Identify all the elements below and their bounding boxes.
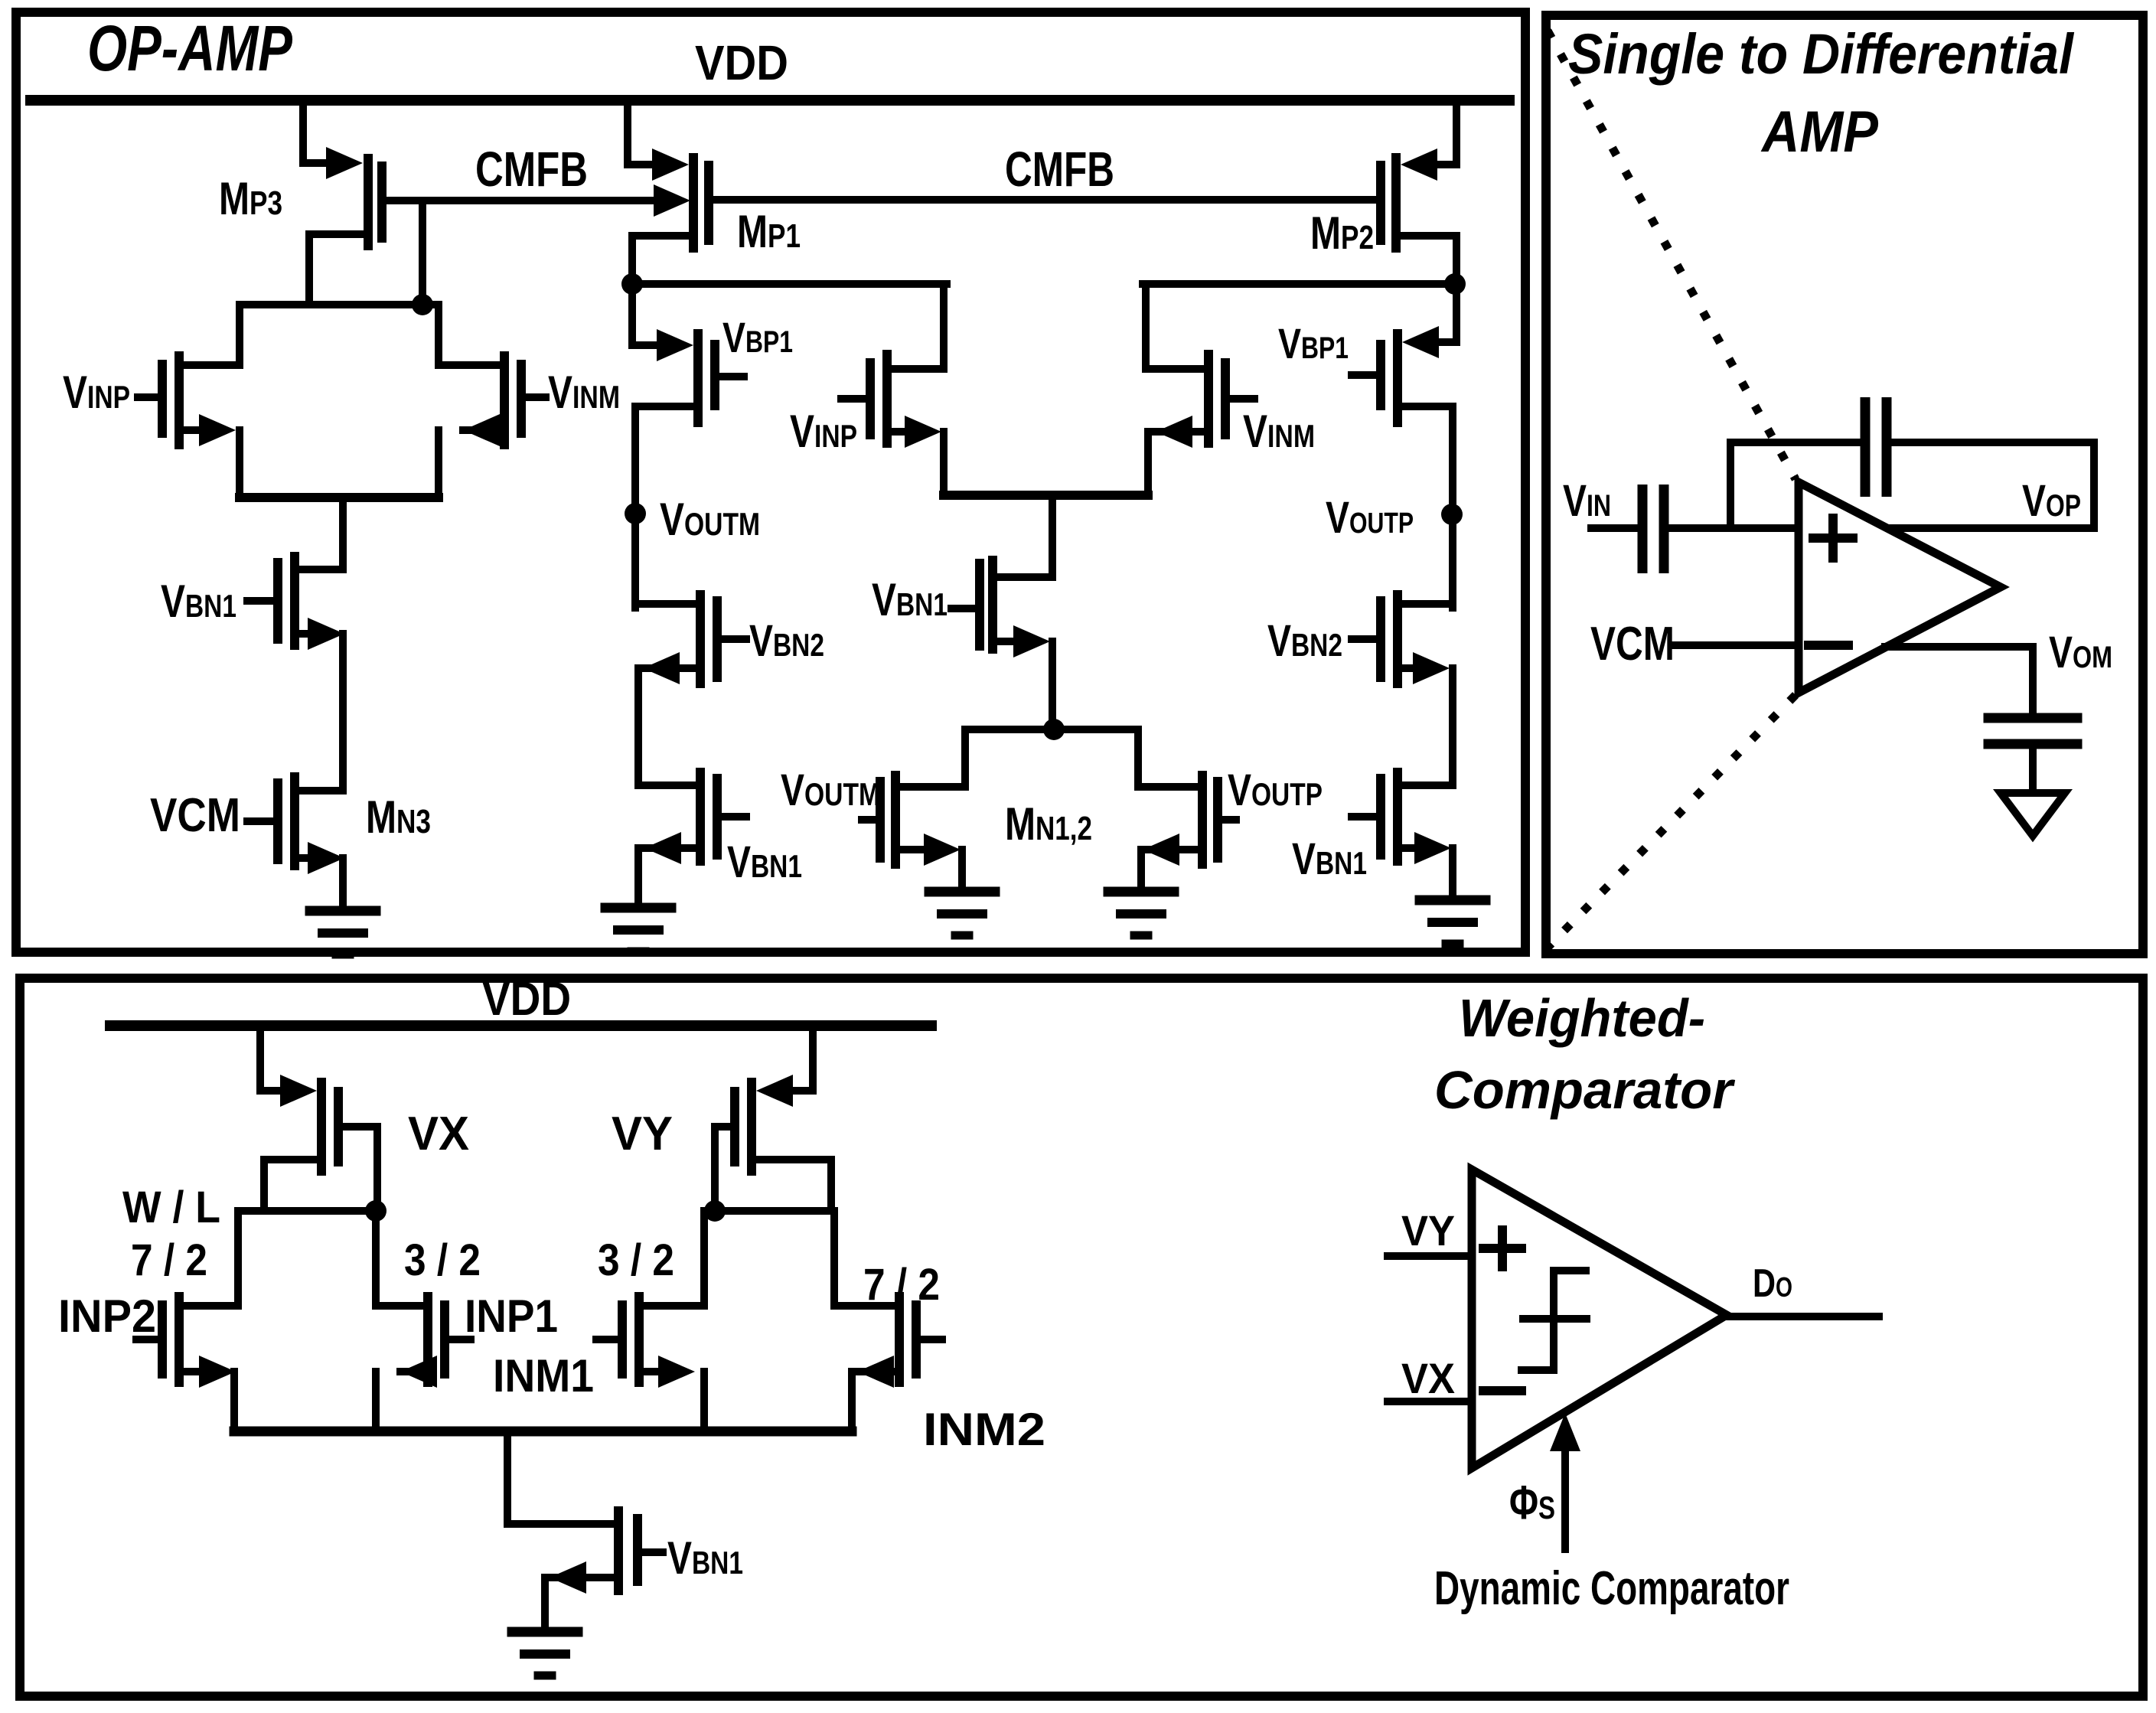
svg-text:Weighted-: Weighted- bbox=[1459, 988, 1705, 1048]
stub VBP1 gate (right) bbox=[1352, 371, 1376, 379]
svg-text:CMFB: CMFB bbox=[475, 142, 588, 197]
transistor INM2 (7/2 NMOS) bbox=[895, 1292, 904, 1387]
transistor VBN1 cascode right (NMOS) bbox=[1402, 781, 1453, 789]
wire VBN1 source to ground (right) bbox=[1402, 844, 1420, 852]
wire VBN1 source bbox=[299, 630, 315, 638]
svg-text:3 / 2: 3 / 2 bbox=[404, 1235, 481, 1285]
junction node VY bbox=[704, 1200, 726, 1222]
wire INM2 source bbox=[857, 1356, 894, 1388]
stub VBN2 gate (left) bbox=[722, 635, 746, 643]
wire VBN1 tail source bbox=[550, 1561, 586, 1594]
wire MN3 source bbox=[299, 854, 315, 862]
construction dashed line upper bbox=[1548, 31, 1796, 479]
wire node C bbox=[1143, 280, 1455, 288]
wire VINP gate lead (main) bbox=[841, 395, 866, 403]
wire common source rail bbox=[234, 1427, 852, 1437]
stub VBN1 gate (right cascode) bbox=[1352, 813, 1376, 821]
wire VINM drain bbox=[440, 361, 500, 369]
panel box OP-AMP bbox=[16, 12, 1525, 952]
transistor MP2 (PMOS) bbox=[1401, 148, 1437, 181]
wire VINM source bbox=[463, 414, 500, 446]
wire MP2 drain to node C bbox=[1401, 232, 1456, 240]
wire VOM output bbox=[1885, 643, 2033, 651]
wire VBN2 source (right) bbox=[1402, 664, 1420, 672]
transistor PMOS VY load bbox=[756, 1075, 793, 1107]
transistor VBN2 cascode right (NMOS) bbox=[1402, 600, 1453, 608]
svg-text:INM1: INM1 bbox=[493, 1350, 594, 1401]
svg-text:Comparator: Comparator bbox=[1434, 1060, 1736, 1120]
wire INP1 source bbox=[400, 1356, 437, 1388]
wire VOP output bbox=[1890, 524, 2094, 532]
svg-text:VY: VY bbox=[612, 1108, 673, 1160]
wire MN1 gate lead bbox=[862, 816, 876, 824]
transistor MP3 (PMOS) bbox=[326, 147, 363, 179]
svg-text:W / L: W / L bbox=[122, 1183, 220, 1232]
wire VBN1 tail drain bbox=[507, 1520, 614, 1528]
wire MN3 drain bbox=[299, 787, 343, 795]
stub VBN1 gate (left cascode) bbox=[722, 813, 746, 821]
wire VOUTP down bbox=[1449, 514, 1456, 608]
transistor MN1 (VOUTM gate, NMOS) bbox=[900, 783, 965, 791]
net CMFB right segment bbox=[713, 196, 1375, 204]
wire VINM gate lead (main) bbox=[1230, 395, 1254, 403]
svg-text:Dynamic Comparator: Dynamic Comparator bbox=[1434, 1562, 1789, 1615]
junction node VOUTP bbox=[1441, 504, 1463, 525]
wire MN1 source bbox=[900, 846, 926, 853]
wire INP1 drain bbox=[376, 1302, 423, 1310]
wire VCM gate lead bbox=[247, 817, 273, 825]
wire CMFB to node A (diode connection) bbox=[419, 201, 426, 305]
transistor MN3 (VCM, NMOS) bbox=[273, 778, 282, 864]
wire VOUTM down bbox=[631, 514, 639, 608]
wire MN2 source bbox=[1143, 834, 1179, 866]
wire node A bbox=[240, 301, 439, 308]
transistor MN2 (VOUTP gate, NMOS) bbox=[1138, 783, 1198, 791]
wire VBP1 source (left) bbox=[628, 284, 636, 345]
comparator triangle bbox=[1472, 1170, 1727, 1468]
wire VINP source (main) bbox=[892, 428, 911, 436]
wire node VX bbox=[238, 1207, 376, 1215]
wire VINP drain bbox=[184, 361, 238, 369]
svg-text:AMP: AMP bbox=[1760, 100, 1878, 165]
wire VOM to load cap bbox=[2029, 647, 2037, 716]
wire MP3 source from VDD bbox=[299, 106, 307, 163]
wire first pair tail bbox=[240, 493, 439, 502]
wire node VY bbox=[704, 1207, 834, 1215]
transistor VBP1 cascode left (PMOS) bbox=[657, 329, 693, 361]
transistor VINM input (first pair right, NMOS) bbox=[500, 351, 509, 449]
svg-text:INP2: INP2 bbox=[58, 1290, 156, 1342]
wire MP2 source from VDD bbox=[1453, 106, 1460, 165]
ground (right cascode) bbox=[1420, 896, 1486, 905]
ground (MN3) bbox=[310, 906, 376, 916]
wire VBN1 drain bbox=[299, 566, 343, 573]
transistor INP1 (3/2 NMOS) bbox=[423, 1292, 432, 1387]
op-amp U1 triangle bbox=[1799, 482, 2001, 693]
wire VBN1 source to ground bbox=[644, 832, 681, 864]
transistor VBN1 main tail (NMOS) bbox=[975, 559, 984, 651]
ground (comparator tail) bbox=[512, 1627, 578, 1637]
VDD power rail (op-amp) bbox=[31, 95, 1509, 106]
junction node B bbox=[621, 273, 643, 295]
svg-text:VDD: VDD bbox=[482, 973, 571, 1026]
wire INM1 gate lead bbox=[596, 1336, 618, 1343]
wire VX PMOS source from VDD bbox=[256, 1027, 264, 1091]
svg-text:VX: VX bbox=[1401, 1354, 1455, 1402]
ground (MN1) bbox=[929, 887, 995, 897]
svg-text:OP-AMP: OP-AMP bbox=[87, 12, 293, 84]
capacitor C-fb bbox=[1861, 397, 1871, 497]
stub VBP1 gate (left) bbox=[719, 373, 744, 380]
comparator minus sign bbox=[1483, 1386, 1522, 1395]
wire MP1 drain to node B bbox=[635, 232, 689, 240]
junction MN gates node bbox=[1043, 719, 1065, 740]
wire VX PMOS gate to drain bbox=[343, 1123, 377, 1131]
transistor VINP input (first pair left, NMOS) bbox=[158, 360, 167, 438]
hysteresis symbol bbox=[1554, 1267, 1586, 1274]
wire VIN to plus input bbox=[1668, 524, 1799, 532]
wire VBN1 gate lead bbox=[247, 597, 273, 605]
wire Do output bbox=[1727, 1313, 1879, 1320]
svg-text:VY: VY bbox=[1401, 1206, 1455, 1255]
svg-text:VDD: VDD bbox=[695, 35, 788, 90]
transistor PMOS VX load bbox=[280, 1075, 317, 1107]
wire VY input bbox=[1388, 1252, 1472, 1260]
wire VBP1 drain to VOUTM bbox=[638, 403, 693, 410]
wire VY PMOS gate to drain bbox=[715, 1123, 730, 1131]
wire feedback top left bbox=[1730, 439, 1858, 446]
wire MN1,2 gate node bbox=[965, 726, 1138, 733]
wire feedback tap bbox=[1727, 442, 1734, 528]
transistor VBN1 tail (first stage, NMOS) bbox=[273, 558, 282, 644]
ground (left cascode) bbox=[605, 903, 671, 913]
wire VINM source (main) bbox=[1156, 416, 1192, 448]
wire VY PMOS drain bbox=[756, 1156, 828, 1163]
svg-text:CMFB: CMFB bbox=[1005, 142, 1114, 197]
wire INP2 drain bbox=[184, 1302, 238, 1310]
wire load cap to ground bbox=[2029, 746, 2037, 793]
stub VBN1 gate (comparator) bbox=[642, 1548, 663, 1556]
ground (amp, open triangle) bbox=[2001, 793, 2065, 836]
wire INP1 gate lead bbox=[449, 1336, 471, 1343]
wire INM2 drain bbox=[834, 1302, 895, 1310]
VDD power rail (comparator) bbox=[110, 1020, 931, 1031]
transistor MP1 (PMOS) bbox=[652, 148, 689, 181]
wire feedback top right bbox=[1892, 439, 2094, 446]
wire VBN1 drain (main tail) bbox=[997, 573, 1052, 581]
wire VY PMOS source from VDD bbox=[809, 1027, 817, 1091]
svg-text:VCM: VCM bbox=[1590, 618, 1675, 671]
wire MP3 drain to node A bbox=[309, 230, 362, 238]
transistor VBP1 cascode right (PMOS) bbox=[1402, 326, 1439, 358]
stub VBN2 gate (right) bbox=[1352, 635, 1376, 643]
junction node VX bbox=[365, 1200, 387, 1222]
panel box Single to Differential AMP bbox=[1546, 15, 2143, 954]
wire MP1 source from VDD bbox=[624, 106, 631, 165]
wire VX PMOS drain bbox=[267, 1156, 317, 1163]
wire VINP gate lead bbox=[138, 393, 158, 401]
capacitor C-load bbox=[1988, 713, 2077, 723]
transistor VBN1 cascode left (NMOS) bbox=[638, 781, 697, 789]
transistor VINM input (main pair right, NMOS) bbox=[1204, 350, 1213, 448]
wire VX input bbox=[1388, 1398, 1472, 1405]
op-amp plus sign bbox=[1813, 533, 1853, 543]
svg-text:INM2: INM2 bbox=[923, 1404, 1045, 1455]
svg-text:3 / 2: 3 / 2 bbox=[598, 1235, 674, 1285]
capacitor C-in bbox=[1591, 524, 1636, 532]
transistor VBN1 tail (comparator, NMOS) bbox=[614, 1506, 623, 1595]
wire VBP1 source (right) bbox=[1453, 284, 1460, 342]
junction node VOUTM bbox=[625, 503, 646, 524]
junction node C bbox=[1444, 273, 1466, 295]
wire INM1 source bbox=[644, 1368, 664, 1375]
wire feedback down to VOP bbox=[2090, 442, 2098, 528]
wire VINM gate lead bbox=[526, 393, 546, 401]
wire VINP source bbox=[184, 426, 205, 434]
junction node A gate tie bbox=[412, 294, 433, 315]
wire node B to VINP drain bbox=[632, 280, 947, 288]
wire main pair tail bbox=[944, 491, 1148, 500]
clock arrow phi-s bbox=[1561, 1439, 1569, 1549]
transistor VINP input (main pair left, NMOS) bbox=[866, 358, 875, 439]
wire VCM to minus input bbox=[1673, 641, 1799, 649]
svg-text:7 / 2: 7 / 2 bbox=[131, 1235, 207, 1285]
wire INM2 gate lead bbox=[921, 1336, 942, 1343]
svg-text:VCM: VCM bbox=[150, 789, 240, 842]
transistor INP2 (7/2 NMOS) bbox=[158, 1300, 167, 1379]
wire INP2 source bbox=[184, 1368, 205, 1375]
net CMFB left segment bbox=[387, 197, 657, 204]
wire VBP1 drain to VOUTP bbox=[1402, 403, 1453, 410]
panel box Weighted-Comparator bbox=[20, 978, 2143, 1696]
svg-text:VX: VX bbox=[408, 1108, 469, 1160]
wire VBN1 source (main tail) bbox=[997, 638, 1018, 645]
comparator plus sign bbox=[1483, 1244, 1522, 1253]
ground (MN2) bbox=[1108, 887, 1174, 897]
transistor VBN2 cascode left (NMOS) bbox=[638, 600, 697, 608]
wire MN2 gate lead bbox=[1222, 816, 1236, 824]
construction dashed line lower bbox=[1548, 695, 1796, 948]
wire VINM drain (main) bbox=[1146, 365, 1204, 373]
svg-text:Single to Differential: Single to Differential bbox=[1568, 22, 2074, 86]
wire INP2 gate lead bbox=[136, 1336, 158, 1343]
wire VBN2 source bbox=[643, 652, 680, 684]
svg-text:INP1: INP1 bbox=[465, 1290, 558, 1342]
op-amp minus sign bbox=[1809, 641, 1848, 650]
transistor INM1 (3/2 NMOS) bbox=[618, 1300, 627, 1379]
wire VBN1 gate lead (main tail) bbox=[951, 605, 977, 612]
wire INM1 drain bbox=[644, 1302, 704, 1310]
